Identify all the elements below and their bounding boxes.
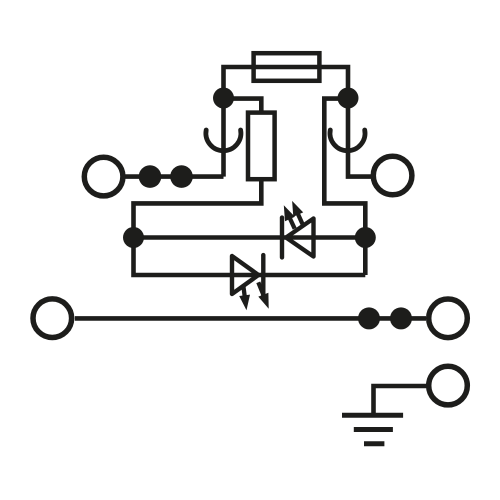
wire resistor top lead — [224, 99, 262, 111]
wire left drop through fuse clip — [221, 98, 226, 177]
LED D2 (lower, pointing right) — [232, 255, 263, 295]
junction node B (right fuse node) — [338, 88, 359, 109]
contact dot left 1 — [139, 165, 162, 188]
junction node A (left fuse node) — [213, 88, 234, 109]
wire top loop from node A up over fuse to node B — [224, 67, 349, 99]
terminal circle ground — [429, 366, 468, 405]
LED D2 light arrow 2 — [258, 282, 268, 308]
fuse F1 — [254, 53, 320, 81]
junction node D (right mid node) — [355, 227, 376, 248]
wire right branch jog — [324, 99, 365, 275]
terminal circle bottom left — [33, 299, 72, 338]
ground bar 2 — [354, 427, 393, 432]
wire right drop through fuse clip to terminal — [348, 98, 371, 177]
resistor R1 — [248, 113, 275, 180]
contact dot rail 2 — [390, 307, 412, 329]
LED D2 light arrow 1 — [239, 286, 250, 311]
terminal circle bottom right — [429, 299, 468, 338]
LED D1 light arrow 1 — [284, 205, 295, 228]
contact dot rail 1 — [358, 307, 380, 329]
ground bar 1 — [342, 413, 403, 418]
LED D1 light arrow 2 — [292, 201, 303, 225]
wire left feed horizontal — [125, 174, 224, 179]
wire resistor bottom lead, box left edge and bottom line — [134, 179, 366, 275]
contact dot left 2 — [170, 165, 193, 188]
terminal circle top right — [373, 156, 412, 195]
wire ground lead — [374, 386, 427, 413]
fuse clip contact right — [330, 130, 365, 151]
wire bottom rail — [75, 316, 426, 321]
wire middle line — [134, 235, 366, 240]
fuse clip contact left — [206, 130, 241, 151]
junction node C (left mid node) — [123, 227, 144, 248]
ground bar 3 — [364, 441, 384, 446]
terminal circle top left — [84, 157, 123, 196]
LED D1 (upper, pointing left) — [282, 218, 314, 258]
